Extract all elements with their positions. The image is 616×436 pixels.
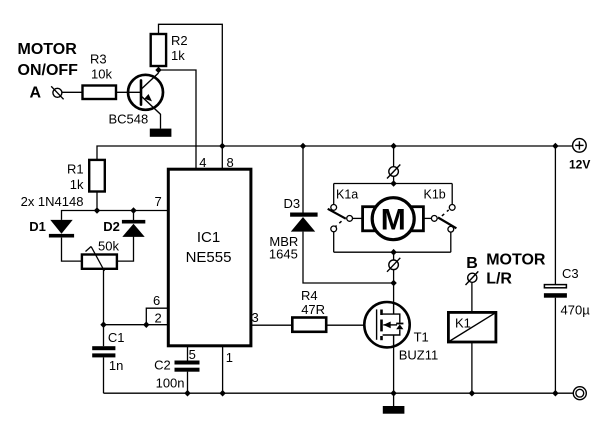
svg-text:3: 3 [252,310,259,325]
svg-text:MOTOR: MOTOR [486,251,546,268]
wire +12V rail [97,146,573,160]
ground (emitter) [150,129,172,137]
svg-text:1k: 1k [70,177,84,192]
node D3 rail junction [300,143,306,150]
svg-text:1: 1 [226,350,233,365]
svg-text:10k: 10k [91,67,112,82]
svg-text:K1: K1 [455,316,471,331]
svg-text:MOTOR: MOTOR [18,41,78,58]
terminal 0V [573,387,586,400]
capacitor C2 [175,361,200,372]
wire D3 bottom to drain node [303,232,394,283]
switch K1a [328,205,353,232]
node source ground junction [390,390,396,397]
svg-text:D3: D3 [284,196,301,211]
node bridge bottom junction [390,249,396,256]
wire terminal A to R3 [62,91,83,93]
svg-text:R4: R4 [301,288,318,303]
wire motor right brush to K1b common [423,217,431,219]
wire C1 top lead [103,325,105,347]
svg-text:IC1: IC1 [197,229,220,246]
svg-text:L/R: L/R [486,270,512,287]
wire ground stem below source [393,393,395,406]
svg-text:2x 1N4148: 2x 1N4148 [21,194,84,209]
svg-text:R3: R3 [90,52,107,67]
diode D3 MBR1645 [290,213,318,232]
diode D1 [49,220,74,238]
svg-text:1n: 1n [109,358,123,373]
svg-text:47R: 47R [301,302,325,317]
node R1 bottom junction [94,207,100,214]
node D2 top junction [130,207,136,214]
switch K1b [431,205,456,233]
wire K1a common to motor brush [353,217,363,219]
node C2 ground junction [184,390,190,397]
wire bridge top right down to K1b [451,184,453,205]
node motor rail junction [390,143,396,150]
relay coil K1 [448,312,496,342]
diode D2 [122,220,145,237]
node relay ground junction [469,390,475,397]
wire bottom connector to drain node [393,270,395,283]
wire R4 to gate [326,324,364,326]
ground (mosfet source) [383,406,405,414]
wire R3 to base [116,91,141,93]
wire C3 bottom lead [554,298,556,394]
transistor T1 BUZ11 mosfet [364,302,409,347]
wire bridge top [334,183,453,185]
wire D1 bottom to pot left [62,238,82,262]
svg-text:8: 8 [227,155,234,170]
wire drain node to mosfet [393,283,395,302]
wire mosfet source to ground rail [393,347,395,393]
terminal +12V [573,139,587,153]
wire pin7 [62,211,169,220]
wire R1 bottom to pin7 node [96,192,98,211]
svg-text:T1: T1 [414,329,429,344]
terminal B [466,271,479,285]
wire D2 bottom to pot right [117,237,134,262]
wire pin1 down [222,346,224,393]
svg-text:50k: 50k [98,239,119,254]
wire C3 top lead [554,146,556,285]
wire bridge top left down to K1a [333,184,335,205]
wire bridge bottom [334,251,451,253]
svg-text:7: 7 [155,194,162,209]
svg-text:B: B [466,255,478,272]
node pin8 rail junction [219,143,225,150]
svg-text:D2: D2 [103,219,120,234]
wire D2 top lead [133,211,135,222]
wire relay coil to ground rail [471,342,473,393]
wire collector to pin4 [159,66,197,169]
svg-text:100n: 100n [156,375,185,390]
node collector junction [155,67,161,74]
wire K1b bottom down [450,232,452,252]
svg-text:C1: C1 [108,330,125,345]
svg-text:NE555: NE555 [186,249,232,266]
connector motor top [387,165,400,179]
resistor R4 [292,318,326,332]
connector motor bottom [387,258,400,272]
capacitor C3 electrolytic [544,285,567,298]
node pin6 bracket junction [143,321,149,328]
svg-text:470µ: 470µ [561,303,591,318]
wire pin3 to R4 [251,324,292,326]
svg-text:1k: 1k [171,48,185,63]
wire ground rail bottom [104,392,574,394]
svg-text:K1a: K1a [336,188,358,202]
svg-text:BUZ11: BUZ11 [399,348,439,363]
wire D3 top lead [302,146,304,213]
wire R2 top loop to pin8 [159,24,223,169]
wire terminal B to relay coil [471,283,473,313]
node bridge top junction [390,180,396,187]
wire C2 bottom [187,372,189,394]
svg-text:2: 2 [155,311,162,326]
wire emitter to ground [160,114,162,129]
svg-text:4: 4 [199,155,206,170]
wire rail to top connector [393,146,395,167]
svg-text:M: M [381,203,406,236]
wire bridge bottom to bottom connector [393,252,395,260]
svg-text:A: A [30,85,42,102]
svg-text:C3: C3 [562,266,579,281]
node pin1 ground junction [219,390,225,397]
transistor Q1 BC548 [128,73,163,114]
svg-text:R2: R2 [171,33,188,48]
node drain junction [390,280,396,287]
wire K1a bottom down [333,232,335,252]
wire pin2 [104,324,169,326]
svg-text:K1b: K1b [424,188,446,202]
motor M1 [363,198,424,240]
svg-text:C2: C2 [154,358,171,373]
resistor R2 [151,34,166,66]
label MOTOR ON/OFF [18,41,79,79]
wire top connector to bridge top [393,176,395,183]
node C3 ground junction [552,390,558,397]
svg-text:D1: D1 [29,219,46,234]
svg-text:BC548: BC548 [109,112,149,127]
potentiometer P1 50k [82,247,117,272]
node wiper pin2 junction [100,321,106,328]
wire pot wiper down [103,269,105,325]
capacitor C1 [92,346,115,357]
wire pin5 to C2 [187,346,189,361]
wire pin6 bracket [146,308,168,325]
svg-text:ON/OFF: ON/OFF [18,62,79,79]
svg-text:R1: R1 [67,162,84,177]
svg-text:5: 5 [189,347,196,362]
svg-text:12V: 12V [569,158,590,172]
terminal A [51,86,63,99]
node C3 rail junction [552,143,558,150]
ic IC1 NE555 [168,169,251,346]
svg-text:6: 6 [153,293,160,308]
wire C1 bottom lead [103,357,105,393]
resistor R3 [83,86,117,100]
svg-text:1645: 1645 [269,246,298,261]
resistor R1 [89,160,105,192]
